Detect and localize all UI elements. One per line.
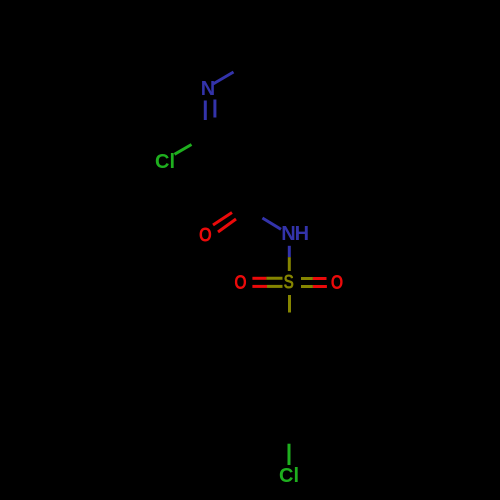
wire bond N1=C2 double (blue halves) [205, 100, 215, 121]
svg-text:O: O [199, 224, 212, 246]
wire bond N1-C6 (blue half) [213, 72, 234, 84]
atom O7 carbonyl oxygen label [199, 224, 212, 246]
wire bond S9=O11 double right (olive+red halves) [301, 279, 327, 287]
atom O10 sulfonyl oxygen left label [234, 272, 247, 294]
svg-text:Cl: Cl [279, 465, 299, 487]
wire bond N8-S9 (olive half) [288, 257, 291, 271]
wire bond C15-Cl18 (green half) [288, 444, 291, 465]
svg-text:N: N [281, 223, 295, 245]
svg-text:O: O [331, 272, 344, 294]
svg-text:S: S [284, 272, 295, 294]
atom O11 sulfonyl oxygen right label [331, 272, 344, 294]
atom Cl18 chlorine on benzene label [279, 465, 299, 487]
atom S9 sulfur label [284, 272, 295, 294]
wire bond C2-Cl2 (green half) [175, 145, 192, 155]
wire bond S9-C12 (olive half) [288, 295, 291, 313]
svg-text:N: N [201, 78, 215, 100]
atom Cl2 chlorine on pyridine label [155, 151, 175, 173]
svg-text:H: H [295, 223, 309, 245]
atom N1 pyridine nitrogen label [201, 78, 215, 100]
wire bond N8-S9 (blue half) [288, 246, 291, 257]
atom N8 amide NH label [281, 223, 309, 245]
wire bond C7-N8 (blue half) [262, 218, 281, 229]
wire bond S9=O10 double left (red+olive halves) [252, 278, 282, 286]
wire bond C7=O7 double (red halves) [213, 213, 236, 233]
svg-text:O: O [234, 272, 247, 294]
svg-text:Cl: Cl [155, 151, 175, 173]
